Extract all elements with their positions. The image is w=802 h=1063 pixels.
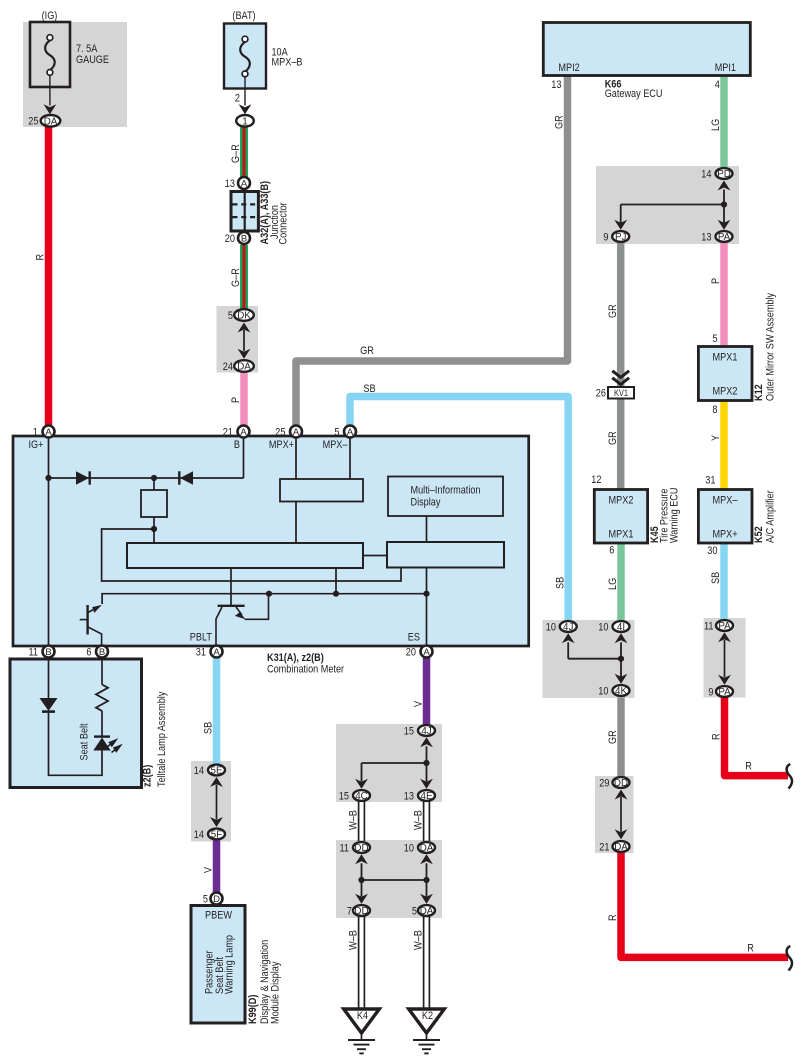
svg-text:DA: DA [420, 906, 434, 917]
svg-text:5: 5 [228, 310, 233, 322]
svg-text:K31(A), z2(B): K31(A), z2(B) [267, 652, 324, 664]
svg-text:4E: 4E [421, 791, 433, 802]
svg-text:4C: 4C [355, 791, 368, 802]
svg-text:10: 10 [404, 842, 414, 854]
svg-text:R: R [35, 254, 47, 261]
svg-text:MPX2: MPX2 [713, 386, 738, 398]
svg-text:13: 13 [225, 178, 235, 190]
svg-text:13: 13 [404, 790, 414, 802]
svg-text:MPI1: MPI1 [715, 62, 736, 74]
svg-text:14: 14 [194, 829, 204, 841]
svg-text:Gateway ECU: Gateway ECU [605, 88, 663, 100]
svg-text:Multi–Information: Multi–Information [411, 484, 481, 496]
svg-text:11: 11 [340, 842, 350, 854]
svg-text:SB: SB [203, 722, 215, 734]
svg-text:15: 15 [404, 725, 414, 737]
svg-text:KV1: KV1 [614, 388, 628, 398]
svg-text:13: 13 [701, 231, 711, 243]
svg-text:MPX2: MPX2 [609, 495, 634, 507]
svg-text:G–R: G–R [230, 144, 242, 163]
svg-text:8: 8 [712, 404, 717, 416]
svg-text:14: 14 [194, 765, 204, 777]
svg-text:K99(D): K99(D) [247, 994, 259, 1024]
svg-text:5: 5 [203, 893, 208, 905]
svg-text:B: B [45, 647, 51, 658]
svg-text:10: 10 [598, 685, 608, 697]
svg-text:Y: Y [710, 434, 722, 441]
svg-text:21: 21 [223, 426, 233, 438]
svg-text:20: 20 [225, 233, 235, 245]
svg-text:ES: ES [408, 632, 420, 644]
svg-text:11: 11 [29, 646, 39, 658]
svg-text:K2: K2 [422, 1010, 433, 1022]
svg-text:GR: GR [607, 431, 619, 445]
svg-text:PJ: PJ [615, 232, 627, 243]
svg-text:B: B [234, 439, 240, 451]
svg-text:Warning ECU: Warning ECU [669, 487, 681, 543]
svg-text:IG+: IG+ [29, 439, 44, 451]
svg-text:V: V [413, 700, 425, 707]
svg-text:A: A [293, 427, 300, 438]
svg-text:K12: K12 [753, 384, 765, 401]
svg-text:(BAT): (BAT) [232, 10, 255, 22]
svg-text:MPX1: MPX1 [713, 352, 738, 364]
svg-text:LG: LG [607, 578, 619, 590]
svg-text:5F: 5F [211, 830, 222, 841]
svg-text:10: 10 [546, 621, 556, 633]
svg-text:PD: PD [717, 169, 731, 180]
svg-text:31: 31 [705, 475, 715, 487]
svg-text:MPX1: MPX1 [609, 529, 634, 541]
svg-text:DK: DK [237, 311, 251, 322]
svg-text:1: 1 [33, 426, 38, 438]
svg-text:A: A [347, 427, 354, 438]
svg-text:DA: DA [237, 362, 251, 373]
svg-text:Display: Display [411, 496, 441, 508]
svg-text:9: 9 [708, 686, 713, 698]
svg-text:GR: GR [554, 115, 566, 129]
svg-text:A: A [45, 427, 52, 438]
svg-text:4J: 4J [421, 726, 431, 737]
svg-text:GAUGE: GAUGE [76, 54, 109, 66]
svg-text:SB: SB [710, 572, 722, 584]
svg-text:A/C Amplifier: A/C Amplifier [765, 490, 777, 543]
svg-text:PA: PA [718, 232, 731, 243]
svg-text:K52: K52 [753, 526, 765, 543]
svg-text:(IG): (IG) [42, 10, 58, 22]
svg-text:GR: GR [360, 345, 374, 357]
svg-text:W–B: W–B [348, 930, 360, 950]
svg-text:D: D [213, 894, 220, 905]
svg-text:LG: LG [710, 119, 722, 131]
svg-text:6: 6 [86, 646, 91, 658]
svg-text:A: A [240, 427, 247, 438]
svg-text:PBLT: PBLT [190, 632, 212, 644]
svg-text:1: 1 [242, 116, 247, 127]
svg-text:PA: PA [718, 621, 731, 632]
svg-text:GR: GR [607, 304, 619, 318]
svg-text:W–B: W–B [413, 930, 425, 950]
svg-text:15: 15 [339, 790, 349, 802]
svg-text:24: 24 [223, 361, 233, 373]
svg-text:31: 31 [196, 646, 206, 658]
svg-text:MPX+: MPX+ [712, 529, 737, 541]
svg-text:4J: 4J [563, 622, 573, 633]
svg-text:DD: DD [354, 843, 368, 854]
svg-text:R: R [607, 914, 619, 921]
svg-text:Telltale Lamp Assembly: Telltale Lamp Assembly [156, 691, 168, 787]
svg-text:9: 9 [603, 231, 608, 243]
svg-text:MPX–: MPX– [323, 439, 349, 451]
svg-text:29: 29 [599, 777, 609, 789]
svg-text:20: 20 [406, 646, 416, 658]
svg-text:Connector: Connector [278, 202, 290, 244]
svg-text:26: 26 [596, 387, 606, 399]
svg-text:A: A [241, 178, 248, 189]
svg-text:W–B: W–B [413, 810, 425, 830]
svg-text:4: 4 [715, 79, 720, 91]
svg-text:V: V [203, 866, 215, 873]
svg-text:P: P [710, 278, 722, 284]
svg-text:14: 14 [701, 168, 711, 180]
svg-text:DA: DA [614, 842, 628, 853]
svg-text:7: 7 [347, 905, 352, 917]
svg-text:DA: DA [44, 116, 58, 127]
svg-text:Outer Mirror SW Assembly: Outer Mirror SW Assembly [765, 292, 777, 401]
svg-text:SB: SB [554, 577, 566, 589]
svg-text:A: A [213, 647, 220, 658]
svg-text:B: B [99, 647, 105, 658]
svg-text:Combination Meter: Combination Meter [267, 664, 344, 676]
svg-text:4K: 4K [615, 686, 627, 697]
svg-text:z2(B): z2(B) [142, 764, 154, 787]
svg-text:GR: GR [607, 730, 619, 744]
svg-text:B: B [241, 233, 247, 244]
svg-text:DA: DA [420, 843, 434, 854]
svg-text:MPX+: MPX+ [269, 439, 294, 451]
svg-text:K4: K4 [357, 1010, 368, 1022]
svg-text:DD: DD [354, 906, 368, 917]
svg-text:12: 12 [591, 474, 601, 486]
svg-text:5: 5 [712, 333, 717, 345]
svg-text:6: 6 [609, 545, 614, 557]
svg-text:MPX–: MPX– [713, 495, 739, 507]
svg-text:5: 5 [334, 426, 339, 438]
svg-text:DD: DD [614, 778, 628, 789]
svg-text:10: 10 [598, 621, 608, 633]
svg-text:SB: SB [363, 383, 375, 395]
svg-text:2: 2 [235, 93, 240, 105]
svg-text:PA: PA [718, 687, 731, 698]
svg-text:W–B: W–B [348, 810, 360, 830]
svg-text:R: R [711, 733, 723, 740]
svg-text:21: 21 [599, 841, 609, 853]
svg-text:11: 11 [704, 620, 714, 632]
svg-text:Module Display: Module Display [270, 961, 282, 1024]
svg-text:Warning Lamp: Warning Lamp [224, 935, 236, 994]
svg-text:5: 5 [412, 905, 417, 917]
svg-text:G–R: G–R [230, 268, 242, 287]
svg-text:MPI2: MPI2 [558, 62, 579, 74]
svg-text:30: 30 [707, 545, 717, 557]
svg-text:PBEW: PBEW [205, 910, 232, 922]
svg-text:P: P [230, 397, 242, 403]
svg-text:R: R [745, 761, 752, 773]
svg-text:25: 25 [28, 116, 38, 128]
svg-text:Seat Belt: Seat Belt [79, 723, 91, 760]
svg-text:25: 25 [275, 426, 285, 438]
svg-text:4I: 4I [617, 622, 625, 633]
svg-text:5E: 5E [211, 766, 223, 777]
svg-text:R: R [747, 943, 754, 955]
svg-text:13: 13 [551, 79, 561, 91]
svg-text:A: A [423, 647, 430, 658]
svg-text:MPX–B: MPX–B [272, 57, 303, 69]
